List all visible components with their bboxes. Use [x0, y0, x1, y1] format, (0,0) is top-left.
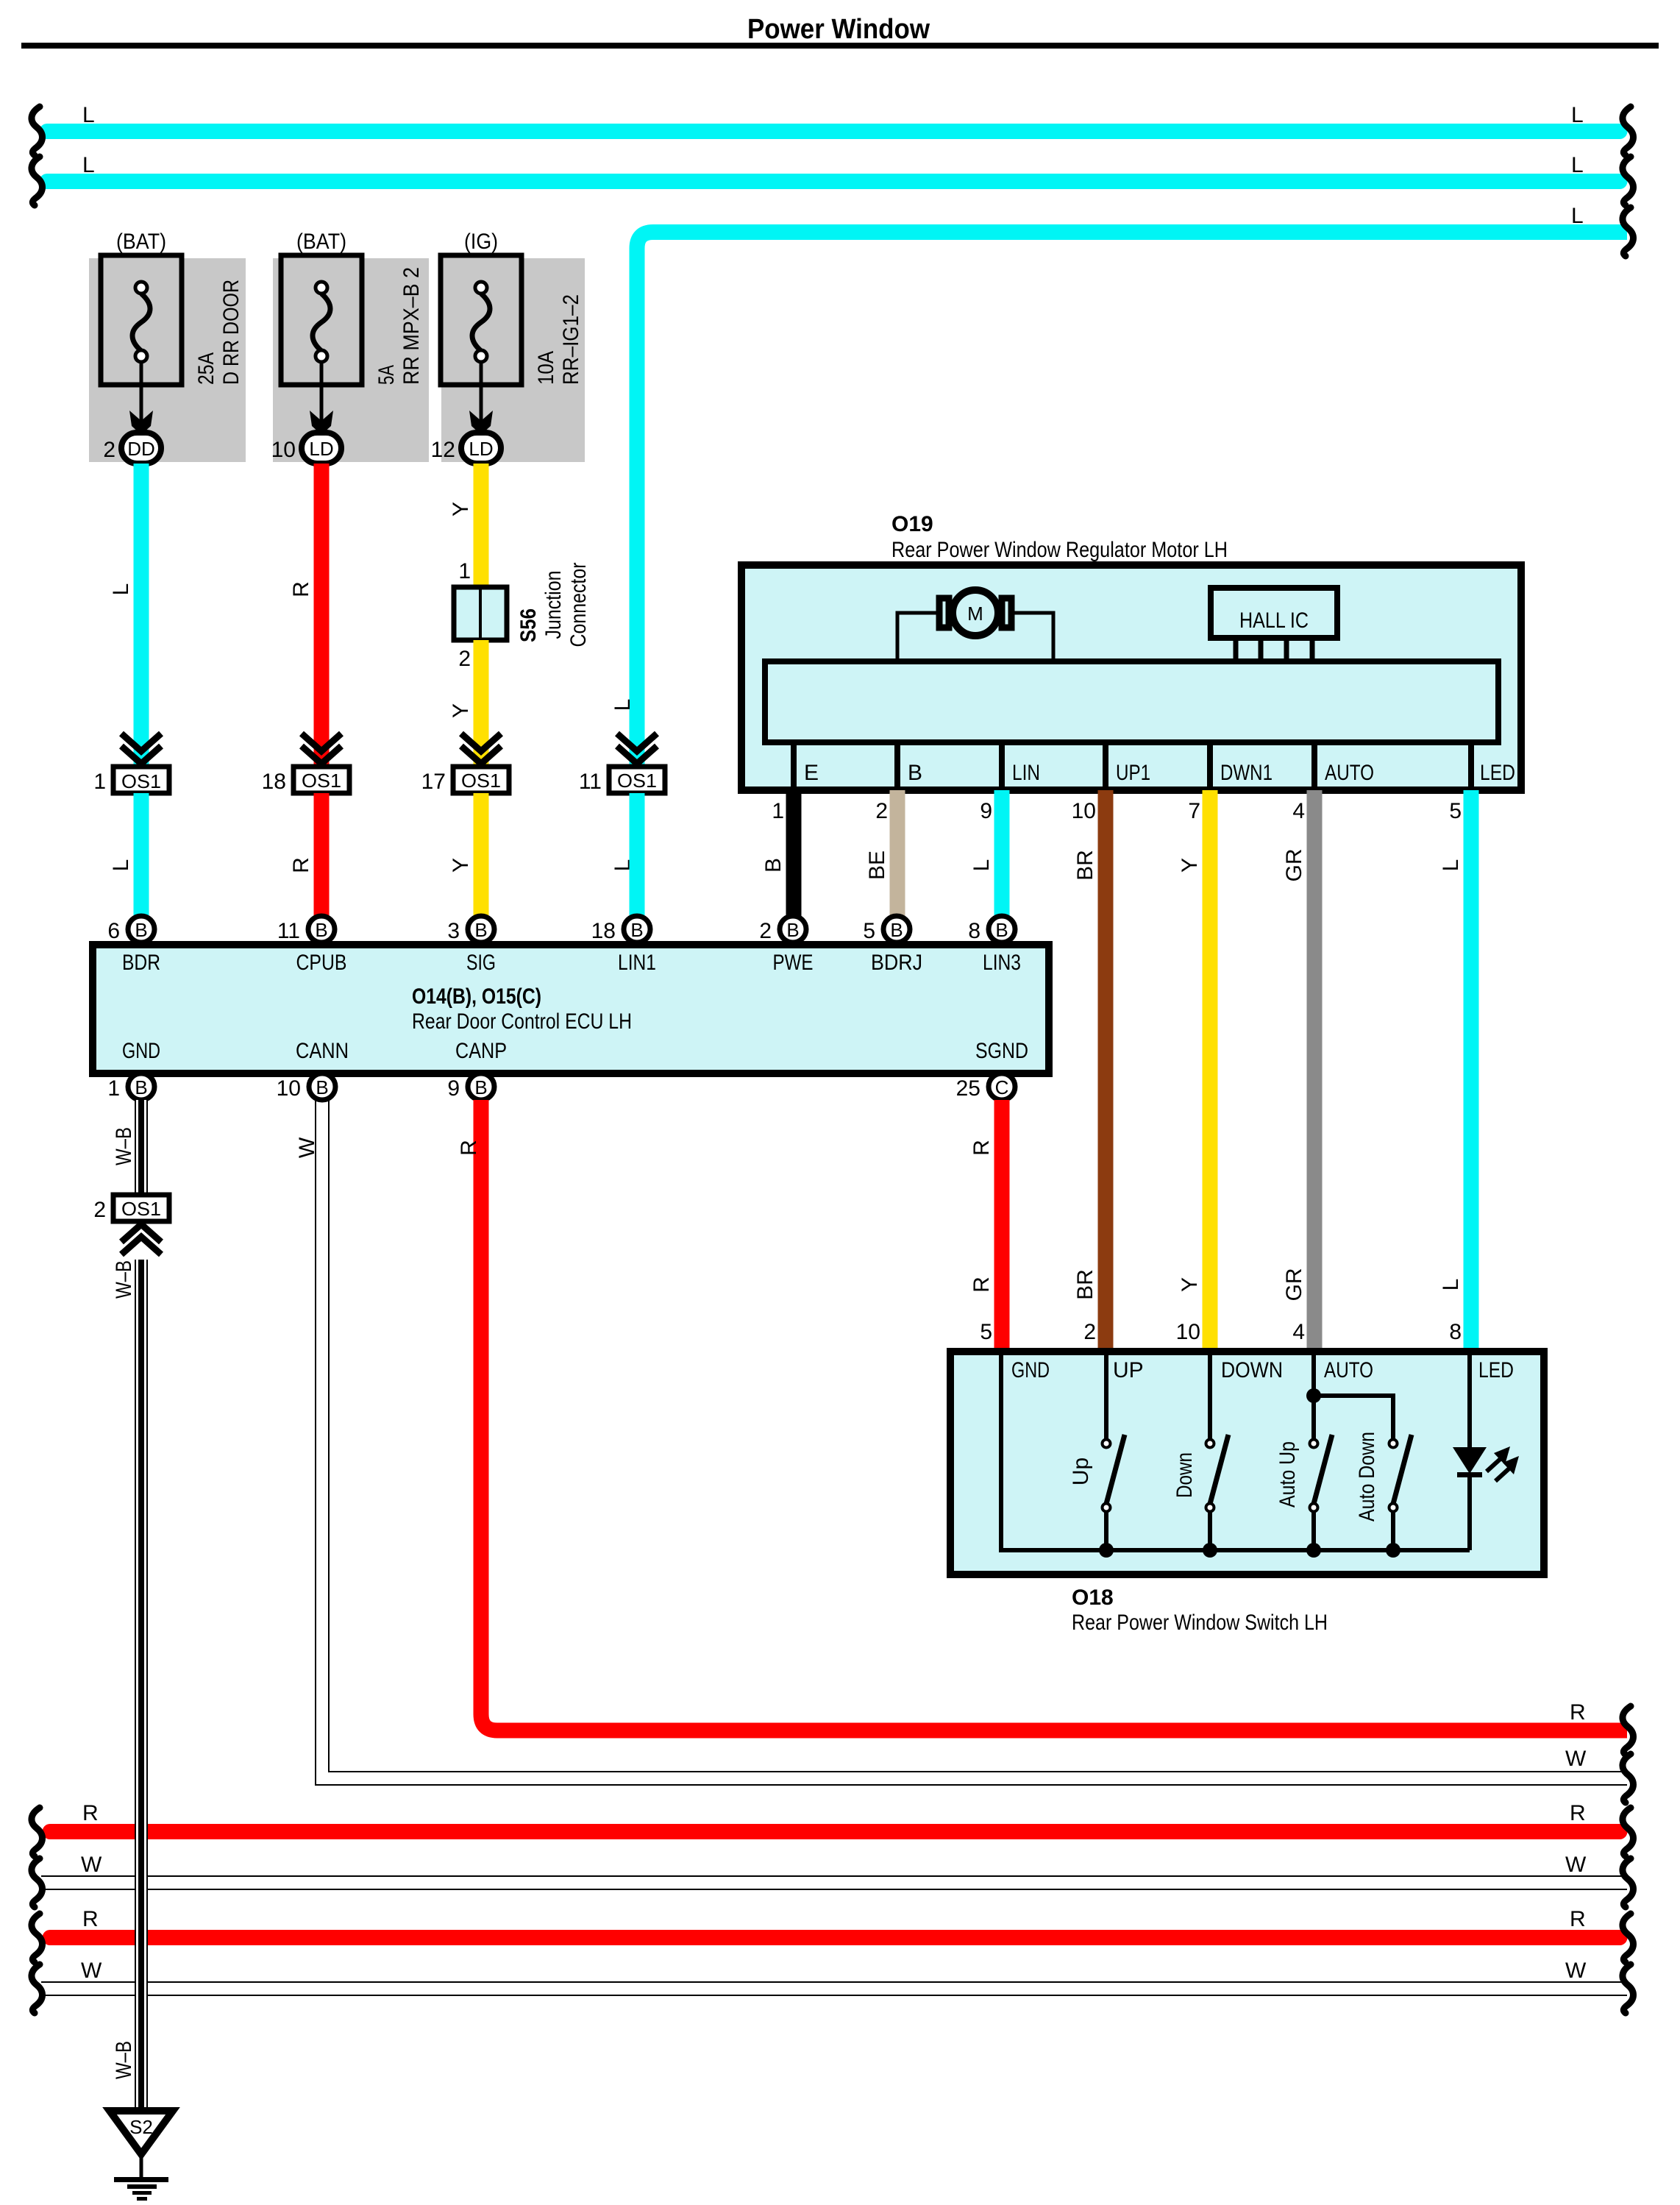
svg-text:E: E [804, 761, 819, 785]
motor M [939, 590, 1011, 636]
wire B O19 pin1 to ECU PWE [761, 790, 802, 917]
title bar [21, 43, 1659, 49]
connector 11 OS1 [579, 734, 665, 794]
svg-text:R: R [82, 1801, 99, 1825]
svg-text:DD: DD [127, 438, 155, 460]
ECU pin 9 B (CANP) [447, 1073, 494, 1101]
break squiggle W bus1 right [1623, 1858, 1634, 1907]
svg-text:3: 3 [447, 919, 460, 943]
svg-text:B: B [995, 919, 1008, 941]
break squiggle L1 right [1623, 107, 1634, 155]
svg-text:W: W [295, 1137, 319, 1158]
break squiggle R bus1 left [32, 1808, 43, 1856]
svg-text:7: 7 [1188, 799, 1200, 823]
svg-text:BR: BR [1073, 1269, 1097, 1300]
svg-text:Auto Down: Auto Down [1355, 1432, 1379, 1522]
ECU pin 2 B (PWE) [759, 916, 806, 943]
svg-text:B: B [786, 919, 799, 941]
svg-text:CANN: CANN [296, 1039, 349, 1063]
break squiggle R bus2 right [1623, 1914, 1634, 1962]
svg-text:GR: GR [1282, 849, 1306, 882]
svg-text:W–B: W–B [112, 1127, 136, 1165]
svg-text:5A: 5A [374, 365, 399, 385]
svg-text:S56: S56 [516, 608, 541, 642]
fuse block 25A D RR DOOR [89, 230, 246, 462]
svg-text:R: R [1570, 1700, 1586, 1725]
svg-text:SGND: SGND [975, 1039, 1028, 1063]
svg-text:R: R [969, 1140, 994, 1156]
wire W-B GND to connector 2 OS1 [112, 1100, 148, 1195]
svg-text:R: R [457, 1140, 481, 1156]
svg-text:UP1: UP1 [1116, 761, 1150, 785]
wire L bus 3 (to LIN1) [611, 204, 1627, 871]
svg-text:L: L [1571, 153, 1584, 177]
svg-text:B: B [135, 1076, 147, 1098]
svg-text:LD: LD [469, 438, 493, 460]
svg-text:R: R [969, 1277, 994, 1293]
svg-text:Y: Y [449, 703, 473, 718]
svg-text:R: R [82, 1907, 99, 1931]
svg-text:R: R [289, 581, 313, 597]
svg-text:8: 8 [968, 919, 980, 943]
break squiggle R canp right [1623, 1706, 1634, 1755]
svg-text:5: 5 [980, 1320, 992, 1344]
break squiggle W bus1 left [32, 1858, 43, 1907]
svg-text:DOWN: DOWN [1221, 1358, 1283, 1382]
svg-text:LED: LED [1478, 1358, 1514, 1382]
svg-text:L: L [109, 859, 133, 872]
svg-text:R: R [1570, 1907, 1586, 1931]
svg-text:10: 10 [271, 438, 296, 462]
svg-text:B: B [474, 1076, 487, 1098]
svg-text:W–B: W–B [112, 2041, 136, 2079]
svg-text:LIN1: LIN1 [618, 951, 656, 975]
svg-text:AUTO: AUTO [1324, 1358, 1373, 1382]
svg-text:L: L [109, 583, 133, 596]
svg-text:11: 11 [277, 919, 300, 943]
fuse block 10A RR-IG1-2 [441, 230, 585, 462]
svg-text:Up: Up [1069, 1457, 1093, 1485]
svg-text:W: W [81, 1959, 102, 1983]
connector 10 LD [271, 433, 341, 464]
svg-text:BDR: BDR [122, 951, 160, 975]
break squiggle L2 right [1623, 157, 1634, 205]
break squiggle L1 left [32, 107, 43, 155]
svg-text:W: W [1565, 1959, 1587, 1983]
svg-text:L: L [1439, 859, 1463, 872]
connector 1 OS1 [93, 734, 169, 794]
O19 Rear Power Window Regulator Motor LH : box [741, 512, 1521, 790]
svg-text:1: 1 [772, 799, 784, 823]
svg-text:AUTO: AUTO [1325, 761, 1374, 785]
break squiggle L3 right [1623, 207, 1634, 256]
svg-text:GND: GND [1011, 1358, 1050, 1382]
svg-text:OS1: OS1 [302, 770, 341, 792]
svg-text:CPUB: CPUB [296, 951, 347, 975]
wire R bus 1 (bottom) [50, 1801, 1620, 1832]
switch Up [1069, 1355, 1125, 1558]
wire BR O19 pin10 to O18 pin2 [1072, 790, 1114, 1348]
svg-text:18: 18 [262, 770, 286, 794]
switch Down [1172, 1355, 1228, 1558]
ground S2 [110, 2111, 173, 2201]
svg-text:CANP: CANP [455, 1039, 507, 1063]
svg-text:LED: LED [1480, 761, 1515, 785]
wire L O19 pin9 to ECU LIN3 [969, 790, 1010, 917]
junction connector S56 [454, 562, 591, 647]
svg-text:D RR DOOR: D RR DOOR [219, 280, 243, 385]
wire L OS1 to ECU pin 6 [109, 793, 149, 917]
svg-text:PWE: PWE [773, 951, 814, 975]
svg-text:11: 11 [579, 770, 602, 794]
wire Y fuse3 to junction S56 [449, 464, 489, 587]
svg-text:RR MPX–B 2: RR MPX–B 2 [399, 267, 424, 385]
svg-text:OS1: OS1 [121, 1198, 161, 1220]
svg-text:B: B [890, 919, 903, 941]
svg-text:L: L [1439, 1279, 1463, 1291]
svg-text:BDRJ: BDRJ [871, 951, 922, 975]
svg-text:4: 4 [1292, 799, 1305, 823]
svg-text:Junction: Junction [541, 571, 566, 639]
svg-text:2: 2 [759, 919, 772, 943]
ECU O14(B) O15(C) Rear Door Control ECU LH [93, 945, 1049, 1073]
svg-text:(IG): (IG) [464, 230, 498, 254]
wire L bus 2 [47, 153, 1620, 182]
svg-text:GND: GND [122, 1039, 160, 1063]
O19 pin cells E B LIN UP1 DWN1 AUTO LED [794, 742, 1515, 787]
ECU pin 10 B (CANN) [277, 1073, 335, 1101]
svg-text:LIN3: LIN3 [983, 951, 1021, 975]
wire GR O19 pin4 to O18 pin4 [1282, 790, 1323, 1348]
ECU pin 5 B (BDRJ) [863, 916, 910, 943]
wire R fuse2 to OS1 [289, 464, 330, 768]
O18 GND conductor [1001, 1355, 1470, 1550]
svg-text:10: 10 [1176, 1320, 1200, 1344]
svg-text:LD: LD [309, 438, 333, 460]
svg-text:OS1: OS1 [617, 770, 657, 792]
O18 Rear Power Window Switch LH : box [950, 1352, 1544, 1635]
wire W-B OS1 to ground S2 [112, 1260, 148, 2108]
svg-text:Rear Power Window Regulator Mo: Rear Power Window Regulator Motor LH [891, 538, 1228, 562]
svg-text:17: 17 [421, 770, 446, 794]
svg-text:UP: UP [1113, 1358, 1144, 1382]
svg-text:B: B [316, 1076, 328, 1098]
wire L fuse1 to OS1 [109, 464, 149, 768]
svg-text:1: 1 [93, 770, 106, 794]
svg-text:B: B [315, 919, 327, 941]
ECU pin 1 B (GND) [107, 1073, 154, 1101]
HALL IC [1211, 588, 1337, 661]
wire W CANN to right edge [295, 1100, 1627, 1785]
break squiggle W bus2 left [32, 1964, 43, 2013]
svg-text:O18: O18 [1072, 1586, 1114, 1610]
wire R bus 2 (bottom) [50, 1907, 1620, 1938]
svg-text:12: 12 [431, 438, 455, 462]
svg-text:9: 9 [980, 799, 992, 823]
node AUTO branch [1306, 1388, 1393, 1440]
ECU pin 3 B (SIG) [447, 916, 494, 943]
svg-text:10: 10 [277, 1076, 301, 1101]
wire R CANP to right edge [457, 1100, 1627, 1730]
fuse block 5A RR MPX-B 2 [273, 230, 429, 462]
svg-text:SIG: SIG [466, 951, 496, 975]
svg-text:R: R [1570, 1801, 1586, 1825]
connector 2 DD [103, 433, 161, 464]
svg-text:GR: GR [1282, 1268, 1306, 1302]
ECU pin 6 B (BDR) [107, 916, 154, 943]
svg-text:W: W [1565, 1747, 1587, 1771]
svg-text:Y: Y [1178, 1277, 1202, 1292]
svg-text:Y: Y [449, 502, 473, 516]
svg-text:Auto Up: Auto Up [1275, 1441, 1300, 1508]
ECU pin 11 B (CPUB) [277, 916, 335, 943]
svg-text:W: W [81, 1853, 102, 1877]
wire L OS1 to ECU pin 18 [630, 793, 645, 917]
wire Y junction S56 to OS1 [449, 640, 489, 768]
svg-text:L: L [969, 859, 994, 872]
svg-text:R: R [289, 857, 313, 873]
break squiggle R bus2 left [32, 1914, 43, 1962]
svg-text:Y: Y [1178, 858, 1202, 873]
O19 inner board [765, 661, 1498, 742]
svg-text:Power Window: Power Window [747, 14, 930, 45]
svg-text:10: 10 [1072, 799, 1096, 823]
svg-text:B: B [630, 919, 643, 941]
svg-text:10A: 10A [534, 351, 558, 385]
svg-text:2: 2 [103, 438, 115, 462]
svg-text:Y: Y [449, 858, 473, 873]
svg-text:8: 8 [1449, 1320, 1462, 1344]
svg-text:B: B [908, 761, 922, 785]
svg-text:4: 4 [1292, 1320, 1305, 1344]
svg-text:L: L [1571, 204, 1584, 228]
svg-text:LIN: LIN [1012, 761, 1040, 785]
svg-text:B: B [474, 919, 487, 941]
svg-text:2: 2 [93, 1198, 106, 1222]
svg-text:18: 18 [591, 919, 616, 943]
wire BE O19 pin2 to ECU BDRJ [865, 790, 905, 917]
wire Y O19 pin7 to O18 pin10 [1176, 790, 1218, 1348]
svg-text:OS1: OS1 [121, 770, 161, 792]
svg-text:2: 2 [1083, 1320, 1096, 1344]
svg-text:W: W [1565, 1853, 1587, 1877]
svg-text:BE: BE [865, 851, 889, 880]
svg-text:6: 6 [107, 919, 120, 943]
svg-text:5: 5 [1449, 799, 1462, 823]
svg-text:HALL IC: HALL IC [1239, 608, 1309, 633]
svg-text:1: 1 [458, 559, 471, 583]
connector 12 LD [431, 433, 501, 464]
wire W bus 2 (bottom) [41, 1959, 1627, 1996]
wire L bus 1 (top) [47, 103, 1620, 132]
svg-text:2: 2 [458, 647, 471, 671]
switch Auto Down [1355, 1432, 1412, 1558]
ECU pin 8 B (LIN3) [968, 916, 1015, 943]
break squiggle L2 left [32, 157, 43, 205]
svg-text:5: 5 [863, 919, 875, 943]
svg-text:1: 1 [107, 1076, 120, 1101]
connector 18 OS1 [262, 734, 349, 794]
svg-text:O14(B), O15(C): O14(B), O15(C) [412, 984, 541, 1009]
connector 2 OS1 (GND) [93, 1195, 169, 1254]
svg-text:O19: O19 [891, 512, 933, 536]
svg-text:B: B [135, 919, 147, 941]
break squiggle W bus2 right [1623, 1964, 1634, 2013]
svg-text:Connector: Connector [566, 562, 591, 647]
svg-text:RR–IG1–2: RR–IG1–2 [559, 294, 583, 385]
ECU pin 25 C (SGND) [956, 1073, 1015, 1101]
svg-text:L: L [1571, 103, 1584, 127]
break squiggle R bus1 right [1623, 1808, 1634, 1856]
svg-text:M: M [967, 603, 983, 625]
svg-text:Rear Door Control ECU LH: Rear Door Control ECU LH [412, 1009, 632, 1034]
svg-text:BR: BR [1073, 850, 1097, 881]
svg-text:C: C [995, 1076, 1009, 1098]
connector 17 OS1 [421, 734, 509, 794]
svg-text:S2: S2 [129, 2116, 153, 2138]
switch Auto Up [1275, 1355, 1332, 1558]
svg-text:B: B [761, 858, 786, 873]
svg-text:9: 9 [447, 1076, 460, 1101]
motor M wiring [897, 613, 1053, 661]
svg-text:(BAT): (BAT) [116, 230, 166, 254]
svg-text:2: 2 [875, 799, 888, 823]
svg-text:(BAT): (BAT) [296, 230, 346, 254]
wire R OS1 to ECU pin 11 [289, 793, 330, 917]
svg-text:Rear Power Window Switch LH: Rear Power Window Switch LH [1072, 1611, 1328, 1635]
svg-text:OS1: OS1 [461, 770, 501, 792]
ECU pin 18 B (LIN1) [591, 916, 650, 943]
LED lamp [1453, 1355, 1519, 1550]
wire L O19 pin5 to O18 pin8 [1439, 790, 1479, 1348]
svg-text:L: L [82, 103, 95, 127]
svg-text:L: L [611, 699, 635, 711]
wire R SGND to O18 pin5 [969, 1100, 1010, 1348]
wire W bus 1 (bottom) [41, 1853, 1627, 1890]
break squiggle W cann right [1623, 1754, 1634, 1803]
svg-text:DWN1: DWN1 [1220, 761, 1273, 785]
svg-text:W–B: W–B [112, 1260, 136, 1299]
svg-text:Down: Down [1172, 1452, 1197, 1498]
svg-text:L: L [82, 153, 95, 177]
svg-text:25: 25 [956, 1076, 980, 1101]
svg-text:25A: 25A [194, 352, 218, 385]
wire Y OS1 to ECU pin 3 [449, 793, 489, 917]
